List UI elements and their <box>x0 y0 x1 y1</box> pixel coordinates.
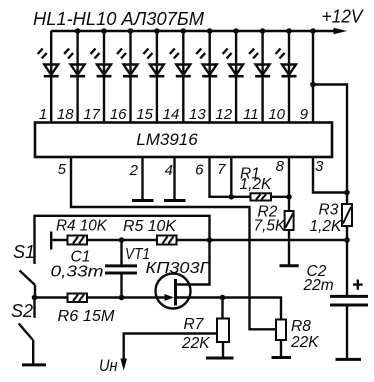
junction: bus / HL3 <box>101 28 107 34</box>
wire: pin 3 <box>313 157 347 193</box>
resistor R4 <box>68 236 88 245</box>
capacitor C2 <box>330 296 368 358</box>
svg-text:R8: R8 <box>291 318 311 335</box>
svg-text:LM3916: LM3916 <box>136 130 198 149</box>
svg-text:8: 8 <box>276 158 285 175</box>
wire: pin 7 <box>230 157 232 197</box>
svg-text:1,2K: 1,2K <box>310 218 343 235</box>
resistor R2 <box>285 211 294 230</box>
resistor R7 <box>217 298 229 358</box>
svg-text:R4 10K: R4 10K <box>56 218 108 235</box>
junction: bus / HL10 <box>286 28 292 34</box>
label R8 22K <box>290 318 319 351</box>
svg-text:22K: 22K <box>181 335 210 352</box>
svg-text:12: 12 <box>215 106 232 123</box>
LED HL8 <box>223 31 244 123</box>
wire: R2 to ground <box>288 230 290 265</box>
svg-text:4: 4 <box>165 162 173 179</box>
capacitor C1 <box>105 240 137 298</box>
svg-text:11: 11 <box>243 106 259 123</box>
svg-text:1,2K: 1,2K <box>240 176 273 193</box>
ground: pin 2 <box>132 157 154 201</box>
svg-text:16: 16 <box>110 106 127 123</box>
wire: node to R6 <box>35 296 68 298</box>
svg-text:Uн: Uн <box>99 356 118 375</box>
wire: input to R4 <box>51 239 67 241</box>
resistor R1 <box>251 193 272 200</box>
junction: bus / HL6 <box>181 28 187 34</box>
svg-text:КП303Г: КП303Г <box>146 260 212 277</box>
Uн arrow <box>120 359 127 371</box>
capacitor C2 polarity + <box>353 280 363 290</box>
junction: R3 / signal row <box>344 237 350 243</box>
junction: S1/S2/R6 node <box>32 295 38 301</box>
switch S1 <box>20 271 36 298</box>
LED HL3 <box>91 31 112 123</box>
label R3 1,2K <box>310 202 343 236</box>
svg-text:S2: S2 <box>11 301 33 321</box>
label R1 1,2K <box>240 166 273 194</box>
junction: C1 / gate wire <box>119 295 125 301</box>
svg-text:2: 2 <box>129 162 139 179</box>
svg-text:HL1-HL10 АЛ307БМ: HL1-HL10 АЛ307БМ <box>33 9 204 29</box>
junction: R5 / drain / link <box>207 237 213 243</box>
label R2 7,5K <box>254 204 287 235</box>
transistor VT1 КП303Г <box>156 240 282 320</box>
svg-text:6: 6 <box>195 162 204 179</box>
wire: bus to pin 9 <box>312 31 314 123</box>
ground: S2 <box>22 363 46 366</box>
+12V bus wire <box>51 30 335 32</box>
LED HL7 <box>196 31 217 123</box>
svg-text:18: 18 <box>57 106 74 123</box>
resistor R8 <box>276 320 286 357</box>
LED HL10 <box>276 31 297 123</box>
resistor R3 <box>342 204 352 226</box>
wire: R1 to pin 8 node <box>271 196 289 198</box>
wire: pin 5 down, right, down to R8 <box>71 157 277 329</box>
svg-text:17: 17 <box>83 106 100 123</box>
svg-text:9: 9 <box>300 106 309 123</box>
junction: bus / HL2 <box>75 28 81 34</box>
junction: pin3 / R3 column <box>344 190 350 196</box>
junction: bus / HL5 <box>154 28 160 34</box>
svg-text:22m: 22m <box>303 277 334 294</box>
svg-text:R6 15M: R6 15M <box>58 308 115 325</box>
svg-text:R3: R3 <box>319 202 339 219</box>
LED HL5 <box>143 31 164 123</box>
wire: +12V branch to R3 column <box>313 85 347 205</box>
svg-text:+12V: +12V <box>322 7 365 27</box>
wire: R6 to VT1 gate <box>87 296 166 298</box>
junction: bus / HL4 <box>128 28 134 34</box>
input terminal cap <box>50 232 52 250</box>
svg-text:3: 3 <box>315 158 324 175</box>
label C2 22m <box>303 263 334 294</box>
junction: bus / pin9 wire <box>310 28 316 34</box>
label C1 0,33m <box>51 249 104 281</box>
svg-text:13: 13 <box>189 106 206 123</box>
LED HL6 <box>170 31 191 123</box>
junction: R4/R5/C1 node <box>119 237 125 243</box>
junction: pin7 / pin6 wire <box>229 194 235 200</box>
svg-text:R7: R7 <box>184 316 205 333</box>
ground: C2 <box>336 358 362 361</box>
ground: R8 <box>272 356 292 359</box>
LED HL4 <box>117 31 138 123</box>
junction: bus / HL8 <box>233 28 239 34</box>
junction: source / R7 <box>220 295 226 301</box>
LED HL2 <box>64 31 85 123</box>
ground: R7 <box>206 357 234 360</box>
ground: R2 <box>280 264 299 267</box>
switch S2 <box>19 298 35 364</box>
ground: pin 4 <box>164 157 186 201</box>
svg-text:1: 1 <box>39 106 47 123</box>
svg-text:7,5K: 7,5K <box>254 218 287 235</box>
label R7 22K <box>181 316 210 352</box>
svg-text:5: 5 <box>58 161 67 178</box>
wire: signal row down to C2 <box>346 240 348 296</box>
wire: pin 8 down to R2 <box>288 157 290 211</box>
junction: bus / HL9 <box>260 28 266 34</box>
wire: Uн output tap <box>124 334 217 359</box>
wire: R5 to drain node and on to R3 <box>177 239 348 241</box>
LED HL1 <box>38 31 59 123</box>
junction: bus / HL7 <box>207 28 213 34</box>
wire: pin 6 to R1 <box>210 157 251 197</box>
resistor R6 <box>68 294 88 303</box>
op-amp U1 LM3916 box <box>35 123 332 158</box>
svg-text:7: 7 <box>217 161 226 178</box>
svg-text:S1: S1 <box>13 242 35 262</box>
resistor R5 <box>157 236 177 245</box>
svg-text:10: 10 <box>268 106 285 123</box>
svg-text:15: 15 <box>136 106 153 123</box>
junction: pin8 / R1 <box>286 194 292 200</box>
svg-text:22K: 22K <box>290 334 319 351</box>
LED HL9 <box>249 31 270 123</box>
wire: R3 to signal row <box>346 226 348 240</box>
wire: S1 top link over to VT1 drain node <box>35 216 210 264</box>
wire: R4 to R5 <box>87 239 157 241</box>
svg-text:14: 14 <box>163 106 180 123</box>
svg-text:0,33m: 0,33m <box>51 264 104 281</box>
junction: pin9 wire / +12V branch <box>310 82 316 88</box>
svg-text:R5 10K: R5 10K <box>123 218 177 235</box>
